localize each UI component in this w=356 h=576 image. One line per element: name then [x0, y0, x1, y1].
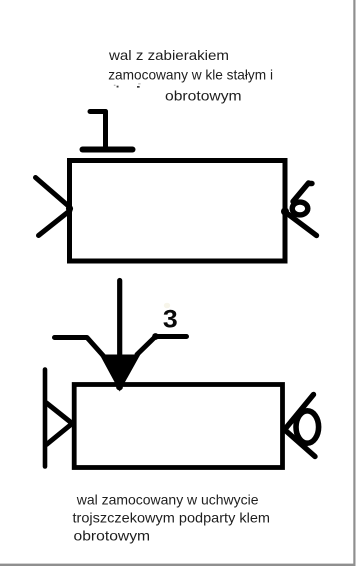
three-jaw chuck support (filled triangle with wings): [101, 355, 140, 391]
shaft 1 body (rectangle): [70, 161, 286, 262]
vertical lead line down to support 3: [117, 281, 122, 385]
svg-text:zamocowany w kle stałym i: zamocowany w kle stałym i: [108, 66, 273, 82]
svg-text:obrotowym: obrotowym: [165, 88, 242, 104]
rotating centre symbol right of shaft 1: [285, 183, 317, 236]
svg-text:3: 3: [163, 306, 178, 333]
caption top: wal z zabierakiem zamocowany w kle stalym i obrotowym: [108, 47, 273, 104]
svg-text:wal zamocowany w uchwycie: wal zamocowany w uchwycie: [76, 491, 259, 507]
erased text remnants: [117, 86, 140, 88]
rotating centre symbol right of shaft 2: [286, 395, 319, 457]
wall + arrow support left of shaft 2: [45, 370, 71, 467]
label 1 (fixed chuck mark above first shaft): [83, 112, 133, 150]
svg-text:obrotowym: obrotowym: [74, 528, 151, 544]
svg-text:trojszczekowym podparty klem: trojszczekowym podparty klem: [73, 510, 271, 526]
svg-text:wal z zabierakiem: wal z zabierakiem: [108, 47, 229, 63]
support arrow left of shaft 1 (fixed centre): [36, 178, 71, 236]
faint smudge above label 3: [164, 303, 170, 309]
page edge lines (scan border): [353, 0, 355, 565]
caption bottom: wal zamocowany w uchwycie trojszczekowym podparty klem obrotowym: [73, 491, 271, 543]
shaft 2 body (rectangle): [74, 385, 282, 468]
